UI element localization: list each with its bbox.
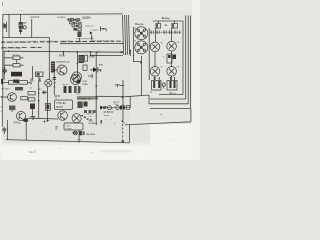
svg-text:01: 01: [54, 86, 56, 88]
svg-text:ФВ 05ХВ: ФВ 05ХВ: [86, 133, 96, 136]
svg-text:Об: Об: [54, 82, 57, 84]
svg-text:Выход: Выход: [135, 22, 143, 26]
svg-text:ЦЕД80: ЦЕД80: [82, 15, 91, 19]
svg-text:лит ша: лит ша: [62, 84, 69, 86]
svg-text:1ПВБ: 1ПВБ: [82, 84, 88, 86]
svg-text:Выход: Выход: [162, 16, 170, 20]
svg-text:1Уф: 1Уф: [114, 103, 118, 106]
svg-text:ЗФЗФВ: ЗФЗФВ: [88, 122, 95, 125]
svg-text:ГУЛЧ ДА: ГУЛЧ ДА: [56, 102, 66, 105]
svg-text:R2 ЧХ 4: R2 ЧХ 4: [2, 88, 11, 90]
svg-text:4у 83: 4у 83: [104, 115, 110, 117]
svg-text:ЗФУ 4Т: ЗФУ 4Т: [87, 113, 95, 116]
svg-text:Рис 2: Рис 2: [29, 150, 36, 154]
svg-text:нагруз: нагруз: [66, 128, 72, 130]
svg-text:7чХ 4пр: 7чХ 4пр: [12, 55, 19, 57]
svg-text:т.с.мочн: т.с.мочн: [57, 17, 66, 19]
svg-text:R25В: R25В: [89, 56, 95, 58]
svg-text:AC70-8: AC70-8: [30, 15, 40, 19]
svg-text:дЬ ж: дЬ ж: [77, 139, 82, 141]
svg-text:R74 д: R74 д: [14, 121, 21, 124]
svg-text:8ГМ П: 8ГМ П: [56, 107, 63, 109]
svg-text:я⊦: я⊦: [163, 56, 165, 59]
svg-text:Об: Об: [0, 107, 3, 109]
svg-text:ЧХМ АЛ7Ч-В: ЧХМ АЛ7Ч-В: [56, 60, 70, 63]
svg-text:и офли: и офли: [91, 29, 99, 32]
svg-text:7гУБ: 7гУБ: [82, 81, 87, 83]
svg-text:согл: согл: [66, 125, 70, 127]
svg-text:АЛ7Б: АЛ7Б: [59, 55, 65, 58]
svg-text:ЧУ ВЗ ЧУ: ЧУ ВЗ ЧУ: [103, 111, 114, 114]
svg-text:напр.вкл: напр.вкл: [85, 25, 95, 27]
